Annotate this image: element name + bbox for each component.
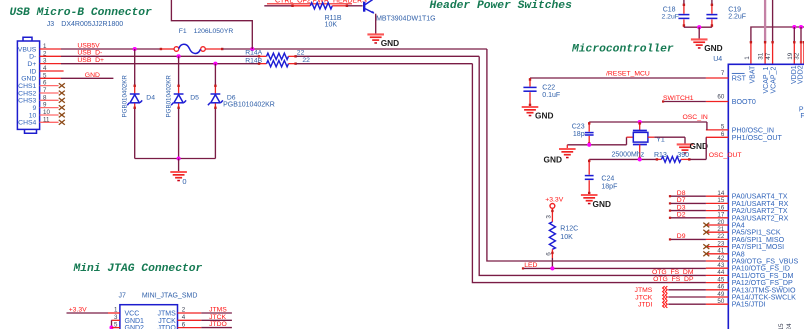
capacitor C23 <box>588 122 590 132</box>
diode D5 <box>178 85 180 93</box>
svg-text:Header Power Switches: Header Power Switches <box>430 0 573 12</box>
junction USB5V branch <box>250 47 254 51</box>
svg-text:J3: J3 <box>47 21 55 28</box>
svg-text:GND: GND <box>544 155 562 165</box>
junction C18/C19 gnd <box>697 25 701 29</box>
J3 pin 10 stub with no-connect <box>40 114 59 116</box>
svg-text:VBAT: VBAT <box>749 65 756 83</box>
J3 pin 6 stub with no-connect <box>40 85 59 87</box>
J3 pin 1 stub <box>40 48 61 50</box>
svg-text:R12C: R12C <box>560 226 578 233</box>
svg-text:D-: D- <box>29 54 36 61</box>
U4 pin 7 RST <box>706 77 728 79</box>
wire D5 column top <box>178 56 180 85</box>
U4 pin 15 PA1/USART4_RX <box>706 202 728 204</box>
svg-text:2.2uF: 2.2uF <box>662 13 679 20</box>
svg-text:5: 5 <box>721 124 725 131</box>
U4 pin 41 PA8 <box>706 253 728 255</box>
crystal right pin to ground <box>648 136 655 138</box>
svg-text:+3.3V: +3.3V <box>69 307 87 314</box>
svg-text:2.2uF: 2.2uF <box>728 13 746 20</box>
svg-text:CHS4: CHS4 <box>18 120 36 127</box>
svg-text:OSC_OUT: OSC_OUT <box>709 152 742 159</box>
svg-text:OTG_FS_DP: OTG_FS_DP <box>653 276 694 283</box>
svg-text:PGB1010402KR: PGB1010402KR <box>223 102 275 109</box>
svg-text:VBUS: VBUS <box>18 46 37 53</box>
svg-text:GND: GND <box>690 141 708 151</box>
ground 0 below diodes <box>178 159 180 172</box>
junction USB5V / D4 <box>133 47 137 51</box>
wire VDD2 drop <box>800 27 802 42</box>
wire D6 column bottom <box>214 109 216 159</box>
junction diode bus <box>177 156 181 160</box>
svg-text:23: 23 <box>717 240 724 247</box>
svg-text:10K: 10K <box>325 22 338 29</box>
svg-text:Microcontroller: Microcontroller <box>571 43 674 55</box>
wire JTCK from J7 <box>178 319 202 321</box>
svg-text:D3: D3 <box>677 204 686 211</box>
svg-text:JTMS: JTMS <box>635 287 653 294</box>
svg-text:GND2: GND2 <box>125 325 145 329</box>
svg-text:D2: D2 <box>677 212 686 219</box>
J3 pin 8 stub with no-connect <box>40 99 59 101</box>
capacitor C22 <box>529 78 531 87</box>
ground below C24 <box>581 195 598 204</box>
svg-text:D+: D+ <box>27 61 36 68</box>
wire J7 GND1 <box>112 319 120 321</box>
J3 pin 4 stub (ID, open) <box>40 70 64 72</box>
J3 pin 3 stub <box>40 63 61 65</box>
wire JTDO from J7 <box>178 327 202 329</box>
svg-text:C23: C23 <box>572 124 585 131</box>
junction C23 gnd <box>587 143 591 147</box>
svg-text:JTCK: JTCK <box>209 314 226 321</box>
svg-text:OSC_IN: OSC_IN <box>682 114 707 121</box>
U4 top stub VCAP_2 pin 47 <box>772 42 774 65</box>
svg-text:F1: F1 <box>179 28 187 35</box>
junction VDD1 <box>792 25 796 29</box>
wire USB5V to fuse <box>61 48 160 50</box>
wire crystal gnd bus <box>567 144 589 146</box>
U4 pin 43 PA10/OTG_FS_ID <box>706 267 728 269</box>
junction crystal bottom <box>638 157 642 161</box>
wire C18-C19 gnd bus <box>684 26 712 28</box>
svg-text:USB Micro-B Connector: USB Micro-B Connector <box>10 7 153 19</box>
crystal Y1 <box>639 122 641 130</box>
svg-text:10K: 10K <box>560 234 573 241</box>
resistor R14A <box>258 55 266 57</box>
diode D4 <box>134 85 136 93</box>
junction J7 gnd <box>109 326 113 329</box>
capacitor C19 <box>711 4 713 14</box>
svg-text:PA15/JTDI: PA15/JTDI <box>732 301 766 309</box>
wire USB5V down to MCU PA9 <box>487 49 706 261</box>
svg-text:0.1uF: 0.1uF <box>542 92 560 99</box>
capacitor C24 <box>588 159 590 174</box>
svg-text:USB5V: USB5V <box>77 42 100 49</box>
svg-text:21: 21 <box>717 226 724 233</box>
svg-text:9: 9 <box>33 105 37 112</box>
wire +3.3V to J7 pin1 <box>108 312 120 314</box>
wire USB_D- left <box>61 55 258 57</box>
wire VDD1 drop <box>793 27 795 42</box>
wire D4 column bottom <box>134 109 136 159</box>
svg-text:10: 10 <box>29 112 37 119</box>
svg-text:46: 46 <box>717 284 724 291</box>
U4 pin 6 PH1/OSC_OUT <box>706 136 728 138</box>
svg-text:31: 31 <box>757 52 764 60</box>
wire crystal bottom / 25MHz net <box>589 158 656 160</box>
svg-text:J7: J7 <box>119 292 127 299</box>
U4 top stub VDD1 pin 19 <box>793 42 795 65</box>
svg-text:ID: ID <box>29 68 36 75</box>
svg-text:VCAP_2: VCAP_2 <box>771 67 778 94</box>
wire C18 top <box>683 0 685 5</box>
U4 pin 23 PA7/SPI1_MOSI <box>706 246 728 248</box>
svg-text:Mini JTAG Connector: Mini JTAG Connector <box>73 263 203 275</box>
JTCK entry squiggle <box>663 293 668 300</box>
svg-text:47: 47 <box>765 52 772 60</box>
svg-text:LED: LED <box>524 262 537 269</box>
U4 pin 42 PA9/OTG_FS_VBUS <box>706 260 728 262</box>
wire D6 column top <box>214 64 216 86</box>
svg-text:GND: GND <box>704 43 722 53</box>
svg-text:JTDO: JTDO <box>209 321 227 328</box>
U4 top stub VCAP_1 pin 31 <box>764 42 766 65</box>
wire SWITCH1 <box>663 101 706 103</box>
svg-text:41: 41 <box>717 248 724 255</box>
wire net D7 <box>670 202 706 204</box>
svg-text:32: 32 <box>794 52 801 60</box>
svg-text:D9: D9 <box>677 233 686 240</box>
svg-text:17: 17 <box>717 212 724 219</box>
wire net D8 <box>670 195 706 197</box>
svg-text:1: 1 <box>744 56 751 60</box>
svg-text:JTDO: JTDO <box>158 325 177 329</box>
svg-text:60: 60 <box>717 93 724 100</box>
svg-text:PGB010402KR: PGB010402KR <box>165 75 172 118</box>
wire LED to MCU PA10 <box>523 267 706 269</box>
svg-text:16: 16 <box>717 204 724 211</box>
wire GND pin5 <box>61 77 113 79</box>
svg-text:18p: 18p <box>573 131 585 138</box>
svg-text:22: 22 <box>297 50 305 57</box>
svg-text:BOOT0: BOOT0 <box>732 98 756 106</box>
JTDI entry squiggle <box>663 301 668 308</box>
wire net JTMS <box>668 289 706 291</box>
U4 pin 21 PA5/SPI1_SCK <box>706 231 728 233</box>
fuse F1 <box>174 44 205 53</box>
ground left of crystal <box>566 145 568 149</box>
wire net D9 <box>670 238 706 240</box>
svg-text:15: 15 <box>778 323 785 329</box>
svg-text:USB_D-: USB_D- <box>77 50 102 57</box>
svg-text:D4: D4 <box>146 94 155 101</box>
wire VCAP_2 <box>772 0 774 42</box>
svg-text:D7: D7 <box>677 197 686 204</box>
svg-text:14: 14 <box>717 190 724 197</box>
wire USB_D+ to MCU PA12 <box>296 63 472 65</box>
svg-text:JTMS: JTMS <box>209 307 227 314</box>
wire net JTCK <box>668 296 706 298</box>
wire D5 column bottom <box>178 109 180 159</box>
svg-text:VDD2: VDD2 <box>797 65 804 84</box>
wire branch up to power header circuit <box>171 0 252 49</box>
U4 pin 50 PA15/JTDI <box>706 303 728 305</box>
svg-text:CHS3: CHS3 <box>18 98 36 105</box>
svg-text:JTCK: JTCK <box>635 294 652 301</box>
svg-text:3: 3 <box>546 215 553 219</box>
svg-text:PGB010402KR: PGB010402KR <box>122 75 129 118</box>
U4 top stub VDD3 pin 48 <box>803 42 804 65</box>
svg-text:18pF: 18pF <box>601 184 617 191</box>
svg-text:GND: GND <box>381 38 399 48</box>
svg-text:50: 50 <box>717 298 724 305</box>
svg-text:JTDI: JTDI <box>638 302 652 309</box>
svg-text:VCC: VCC <box>125 311 140 318</box>
J3 pin 7 stub with no-connect <box>40 92 59 94</box>
wire OSC_IN <box>589 121 707 123</box>
svg-text:CHS2: CHS2 <box>18 90 36 97</box>
wire USB_D- to MCU PA11 <box>296 55 479 57</box>
U4 pin 49 PA14/JTCK-SWCLK <box>706 296 728 298</box>
svg-text:C24: C24 <box>601 176 614 183</box>
wire J7 GND2 <box>112 327 120 329</box>
svg-text:0: 0 <box>182 177 186 186</box>
svg-text:F: F <box>800 113 804 120</box>
svg-text:GND1: GND1 <box>125 318 145 325</box>
svg-text:D6: D6 <box>227 94 236 101</box>
svg-text:25000Mhz: 25000Mhz <box>612 151 645 158</box>
wire net D3 <box>670 210 706 212</box>
wire D4 column top <box>134 49 136 85</box>
svg-text:RST: RST <box>732 75 747 83</box>
resistor R12C <box>551 208 553 222</box>
U4 top stub VBAT pin 1 <box>750 42 752 65</box>
svg-text:GND: GND <box>535 111 553 121</box>
wire net D2 <box>670 217 706 219</box>
svg-text:GND: GND <box>21 76 36 83</box>
connector J3 body <box>17 37 39 133</box>
svg-text:USB_D+: USB_D+ <box>77 57 104 64</box>
svg-text:R13: R13 <box>654 152 667 159</box>
resistor R13 <box>656 158 661 160</box>
wire under CTRL label <box>267 3 352 5</box>
connector J7 body <box>120 305 178 329</box>
svg-text:7: 7 <box>721 70 725 77</box>
U4 pin 5 PH0/OSC_IN <box>706 129 728 131</box>
svg-text:PH1/OSC_OUT: PH1/OSC_OUT <box>732 134 783 142</box>
svg-text:6: 6 <box>721 131 725 138</box>
svg-text:D5: D5 <box>190 94 199 101</box>
svg-text:MBT3904DW1T1G: MBT3904DW1T1G <box>376 16 436 23</box>
wire C19 top <box>711 0 713 5</box>
svg-text:20: 20 <box>717 219 724 226</box>
wire diode ground bus <box>135 158 216 160</box>
svg-text:390: 390 <box>677 152 689 159</box>
diode D6 <box>214 85 216 93</box>
ground below C18/C19 <box>698 27 700 39</box>
svg-text:+3.3V: +3.3V <box>545 197 563 204</box>
U4 pin 20 PA4 <box>706 224 728 226</box>
wire USB_D+ left <box>61 63 258 65</box>
svg-text:U4: U4 <box>713 56 722 63</box>
svg-text:JTMS: JTMS <box>158 311 177 318</box>
svg-text:49: 49 <box>717 291 724 298</box>
U4 pin 14 PA0/USART4_TX <box>706 195 728 197</box>
svg-text:C22: C22 <box>542 84 555 91</box>
junction OSC_IN / crystal <box>638 120 642 124</box>
junction R12C / LED <box>550 266 554 270</box>
svg-text:VCAP_1: VCAP_1 <box>763 67 770 94</box>
svg-text:GND: GND <box>593 199 611 209</box>
resistor R11B <box>292 5 310 7</box>
wire fuse to corner <box>205 48 222 50</box>
svg-text:OTG_FS_DM: OTG_FS_DM <box>652 269 694 276</box>
svg-text:24: 24 <box>786 323 793 329</box>
microcontroller U4 body <box>728 64 804 329</box>
wire net JTDI <box>668 303 706 305</box>
J3 pin 11 stub with no-connect <box>40 121 59 123</box>
junction USB_D+ / D6 <box>213 62 217 66</box>
ground below transistor <box>367 34 384 43</box>
wire JTMS from J7 <box>178 312 202 314</box>
wire VBAT VDD bus <box>751 27 804 42</box>
svg-text:1206L050YR: 1206L050YR <box>194 28 234 35</box>
wire to R11B <box>264 5 292 7</box>
U4 top stub VDD2 pin 32 <box>800 42 802 65</box>
U4 pin 22 PA6/SPI1_MISO <box>706 238 728 240</box>
J3 pin 5 stub <box>40 77 61 79</box>
svg-text:MINI_JTAG_SMD: MINI_JTAG_SMD <box>142 292 198 299</box>
svg-text:D8: D8 <box>677 190 686 197</box>
U4 pin 46 PA13/JTMS-SWDIO <box>706 289 728 291</box>
U4 pin 44 PA11/OTG_FS_DM <box>706 274 728 276</box>
wire VCAP_1 (highlighted) <box>764 0 766 42</box>
wire transistor emitter to ground <box>375 14 377 34</box>
J3 pin 9 stub with no-connect <box>40 107 59 109</box>
svg-text:45: 45 <box>717 276 724 283</box>
svg-text:44: 44 <box>717 269 724 276</box>
svg-text:22: 22 <box>717 233 724 240</box>
transistor Q MBT3904DW1T1G <box>364 0 374 13</box>
U4 pin 60 BOOT0 <box>706 101 728 103</box>
ground right of crystal <box>677 144 694 153</box>
svg-text:42: 42 <box>717 255 724 262</box>
resistor R14B <box>258 63 266 65</box>
wire /RESET_MCU <box>530 77 706 79</box>
capacitor C18 <box>683 4 685 14</box>
junction USB_D- / D5 <box>177 54 181 58</box>
U4 pin 16 PA2/USART2_TX <box>706 210 728 212</box>
svg-text:15: 15 <box>717 197 724 204</box>
svg-text:43: 43 <box>717 262 724 269</box>
svg-text:CHS1: CHS1 <box>18 83 36 90</box>
wire OSC_OUT to pin 6 <box>690 158 706 160</box>
ground below C22 <box>522 107 539 116</box>
svg-text:SWITCH1: SWITCH1 <box>663 95 694 102</box>
junction VDD2 <box>799 25 803 29</box>
svg-text:DX4R005JJ2R1800: DX4R005JJ2R1800 <box>61 21 123 28</box>
J3 pin 2 stub <box>40 55 61 57</box>
svg-text:R14A: R14A <box>245 50 262 57</box>
svg-text:/RESET_MCU: /RESET_MCU <box>606 71 650 78</box>
U4 pin 45 PA12/OTG_FS_DP <box>706 282 728 284</box>
svg-text:6: 6 <box>546 252 553 256</box>
svg-text:R14B: R14B <box>245 57 262 64</box>
JTMS entry squiggle <box>663 286 668 293</box>
U4 pin 17 PA3/USART2_RX <box>706 217 728 219</box>
svg-text:JTCK: JTCK <box>158 318 176 325</box>
